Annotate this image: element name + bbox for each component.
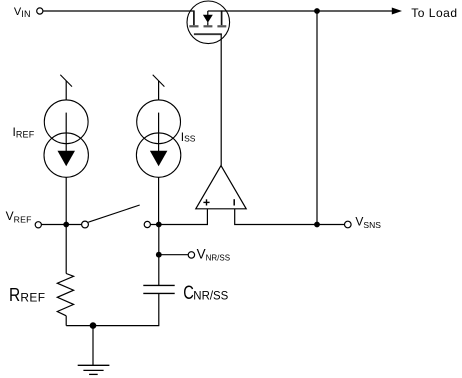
current source IREF lower circle	[44, 133, 88, 177]
label CNRSS	[183, 282, 228, 304]
current source IREF inner arrow line	[65, 113, 67, 151]
junction dot VNRSS tap	[156, 252, 162, 258]
current source IREF arrowhead	[58, 151, 76, 167]
node VREF label	[6, 209, 32, 224]
junction dot ISS/switch/+input	[156, 222, 162, 228]
transistor Q1 body arrow stub	[207, 11, 209, 25]
capacitor CNRSS bottom plate	[143, 292, 174, 294]
svg-text:REF: REF	[20, 290, 45, 304]
junction dot VREF/IREF/RREF	[63, 222, 69, 228]
current source ISS inner arrow line	[158, 113, 160, 151]
node VIN label	[14, 6, 31, 19]
transistor Q1 body arrowhead	[203, 15, 213, 23]
node VSNS terminal circle	[345, 221, 352, 228]
junction dot VSNS/top wire	[314, 222, 320, 228]
resistor RREF top lead	[65, 225, 67, 274]
ground symbol bars	[78, 365, 110, 374]
label ISS	[181, 130, 196, 144]
current source IREF upper circle	[44, 100, 88, 144]
arrowhead To Load	[392, 8, 402, 15]
junction dot ground node	[90, 322, 97, 329]
transistor Q1 gate plate	[194, 33, 222, 35]
wire soft-start node down to capacitor	[158, 225, 160, 286]
ground stem	[92, 326, 94, 366]
label RREF	[9, 285, 45, 305]
current source ISS lead break slash	[153, 75, 165, 87]
transistor Q1 channel segments	[189, 25, 226, 27]
node VREF terminal circle	[35, 222, 41, 228]
capacitor CNRSS top plate	[143, 284, 174, 286]
resistor RREF bottom lead	[65, 316, 67, 326]
current source IREF top lead	[65, 81, 67, 100]
wire Q1 drain to load arrow	[222, 10, 393, 12]
wire top node down to VSNS node	[316, 11, 318, 225]
svg-text:To Load: To Load	[411, 6, 457, 20]
resistor RREF zigzag body	[57, 274, 73, 316]
wire Q1 gate to op-amp U1 output apex	[220, 34, 222, 165]
wire IREF bottom lead to VREF node	[65, 177, 67, 224]
wire bottom rail	[66, 325, 159, 327]
current source ISS top lead	[158, 81, 160, 100]
svg-text:C: C	[183, 282, 194, 304]
wire ISS bottom lead to soft-start node	[158, 177, 160, 224]
transistor Q1 PMOS pass FET: circle outline	[187, 1, 230, 44]
op-amp U1 plus mark	[203, 199, 209, 205]
label IREF	[13, 125, 35, 139]
op-amp U1 triangle	[196, 166, 246, 209]
wire VREF to switch	[42, 224, 82, 226]
node VNRSS label	[197, 246, 230, 262]
node VSNS label	[355, 215, 381, 230]
node VNRSS terminal circle	[188, 252, 194, 258]
current source ISS arrowhead	[150, 151, 168, 167]
switch S1 left terminal	[82, 221, 89, 228]
switch S1 right terminal	[144, 221, 150, 227]
current source ISS lower circle	[136, 133, 180, 177]
wire to VNRSS terminal	[159, 254, 188, 256]
transistor Q1 source contact bar	[193, 10, 195, 25]
svg-text:NR/SS: NR/SS	[193, 288, 228, 302]
capacitor CNRSS bottom lead	[158, 293, 160, 325]
current source IREF lead break slash	[60, 75, 72, 87]
op-amp U1 minus mark (rotated, vertical bar)	[233, 199, 235, 205]
node VIN terminal circle	[37, 8, 43, 14]
wire op-amp inverting input to VSNS node	[235, 209, 345, 225]
wire switch to op-amp noninverting input	[151, 209, 208, 225]
svg-text:R: R	[9, 285, 20, 305]
current source ISS upper circle	[137, 100, 181, 144]
transistor Q1 drain contact bar	[221, 10, 223, 25]
wire VIN to Q1 source	[43, 10, 194, 12]
junction dot at top node	[314, 8, 320, 14]
transistor Q1 body connection horizontal	[208, 10, 222, 12]
label To Load	[411, 6, 457, 20]
switch S1 lever	[88, 205, 139, 222]
